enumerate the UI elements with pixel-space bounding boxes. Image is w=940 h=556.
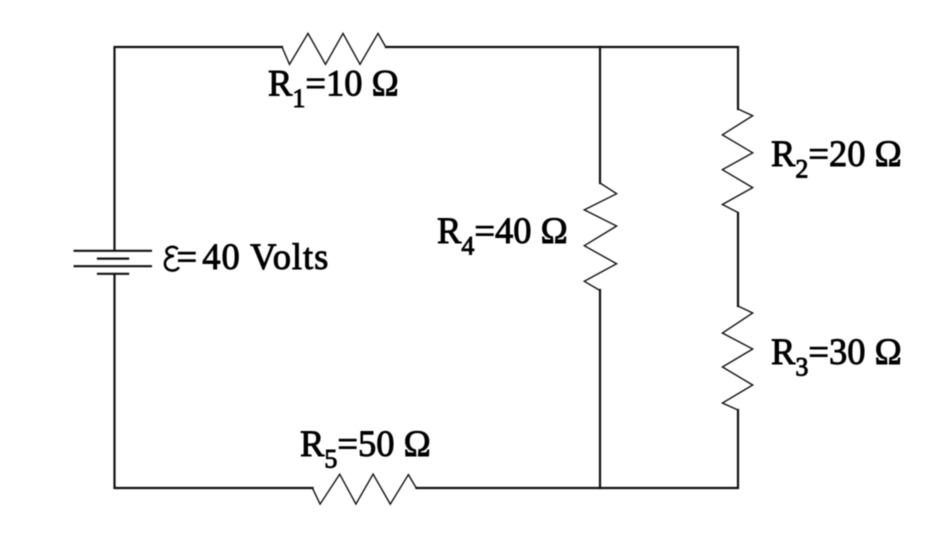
battery B1 [74,251,153,274]
svg-text:R1=10 Ω: R1=10 Ω [268,63,399,114]
wire top-left run [115,47,283,251]
svg-text:R5=50 Ω: R5=50 Ω [300,423,431,474]
svg-text:R3=30 Ω: R3=30 Ω [771,331,902,382]
wire top-right run with node at middle branch [386,47,738,109]
resistor R2 [722,109,752,213]
svg-text:=: = [177,236,198,277]
svg-text:40 Volts: 40 Volts [202,236,329,277]
wire right between R2 and R3 [737,213,739,306]
resistor R5 [313,474,417,504]
wire bottom-left run [115,274,313,488]
resistor R4 [584,183,616,291]
EMF symbol epsilon [165,247,179,271]
svg-text:R2=20 Ω: R2=20 Ω [771,133,902,184]
wire middle branch bottom [599,290,601,488]
svg-text:R4=40 Ω: R4=40 Ω [437,210,568,261]
wire right below R3 [417,410,739,488]
wire middle branch top [599,47,601,183]
resistor R1 [282,33,386,64]
resistor R3 [722,306,752,410]
